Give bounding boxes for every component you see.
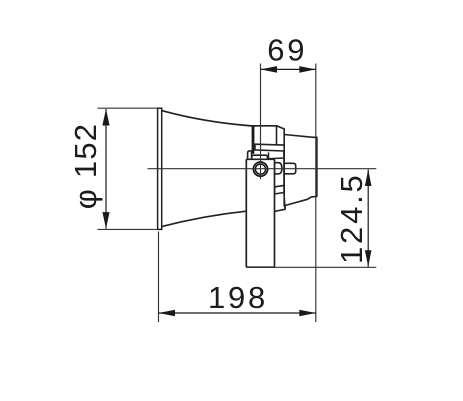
clamp saddle: [252, 155, 268, 159]
terminal tab: [284, 163, 296, 174]
arrow 198 left: [159, 310, 176, 317]
dimension line 69: [261, 68, 316, 70]
dimension line 124.5: [367, 170, 369, 267]
arrow 69 left: [261, 66, 278, 73]
center axis line: [148, 168, 377, 170]
extension line phi152 top: [98, 107, 158, 109]
horn flare top profile: [162, 111, 253, 126]
rib band upper: [269, 152, 285, 159]
arrow phi152 down: [102, 212, 109, 229]
svg-text:198: 198: [208, 280, 268, 315]
knob inner circle: [255, 164, 265, 174]
horn flare bottom profile: [162, 211, 247, 226]
arrow phi152 up: [102, 109, 109, 126]
knob outer circle: [253, 162, 267, 176]
nut on bolt axis: [275, 163, 282, 174]
driver bottom hidden edge connector: [275, 206, 286, 212]
rear cover (driver back housing): [284, 135, 317, 207]
yoke bar: [255, 144, 284, 151]
arrow 124.5 down: [365, 250, 372, 267]
driver body edge: [284, 151, 285, 209]
horn throat flange (thick line): [252, 126, 255, 154]
svg-text:69: 69: [267, 33, 307, 68]
extension line phi152 bottom: [98, 228, 158, 230]
dimension line 198: [159, 312, 316, 314]
extension line 69 left (through knob crosshair): [260, 64, 262, 180]
extension line 198 left: [158, 232, 160, 323]
clamp ear: [248, 151, 252, 160]
arrow 198 right: [299, 310, 316, 317]
svg-text:φ 152: φ 152: [68, 123, 103, 209]
dimension line phi152: [105, 109, 107, 229]
svg-text:124.5: 124.5: [334, 172, 369, 264]
horn bell mouth rim: [158, 108, 162, 229]
driver cap inner edge: [276, 126, 278, 145]
arrow 124.5 up: [365, 170, 372, 187]
driver cap (top front housing): [253, 126, 284, 145]
extension line 69 right: [315, 64, 317, 323]
rib band lower: [275, 185, 285, 194]
extension line 124.5 bottom (bracket base plane): [246, 266, 376, 268]
arrow 69 right: [299, 66, 316, 73]
mounting bracket: [246, 159, 274, 267]
